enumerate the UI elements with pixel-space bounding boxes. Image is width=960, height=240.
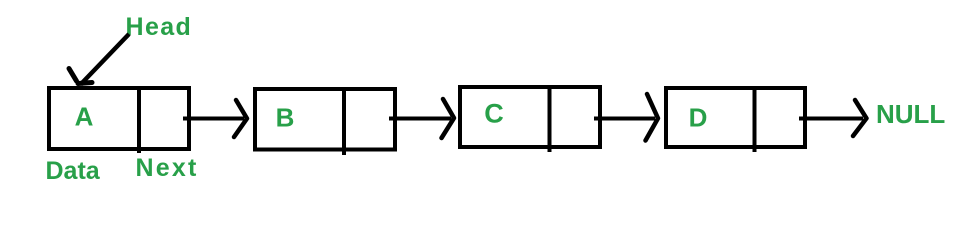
wire arrow A to B head: [234, 100, 247, 137]
node B divider: [342, 87, 346, 155]
node C divider: [548, 85, 552, 152]
wire arrow B to C head: [442, 99, 455, 138]
wire arrow B to C shaft: [389, 117, 451, 121]
svg-text:C: C: [484, 99, 504, 129]
svg-text:Next: Next: [136, 154, 199, 182]
wire arrow C to D head: [646, 94, 659, 141]
wire arrow D to NULL shaft: [799, 117, 863, 121]
svg-text:Head: Head: [126, 13, 193, 41]
node D divider: [753, 86, 757, 152]
head pointer arrow line: [81, 34, 130, 85]
node B box: [255, 89, 395, 150]
head pointer arrowhead: [69, 69, 77, 82]
node A box: [49, 88, 189, 149]
wire arrow A to B shaft: [183, 117, 244, 121]
wire arrow C to D shaft: [594, 117, 655, 121]
head pointer arrowhead barb 2: [78, 83, 92, 84]
svg-text:NULL: NULL: [876, 99, 945, 129]
node A divider: [137, 86, 141, 153]
svg-text:A: A: [75, 102, 94, 132]
node D box: [666, 88, 805, 147]
wire arrow D to NULL head: [853, 100, 867, 136]
svg-text:B: B: [276, 103, 295, 133]
svg-text:D: D: [689, 103, 708, 133]
node C box: [460, 87, 600, 147]
svg-text:Data: Data: [46, 157, 101, 185]
